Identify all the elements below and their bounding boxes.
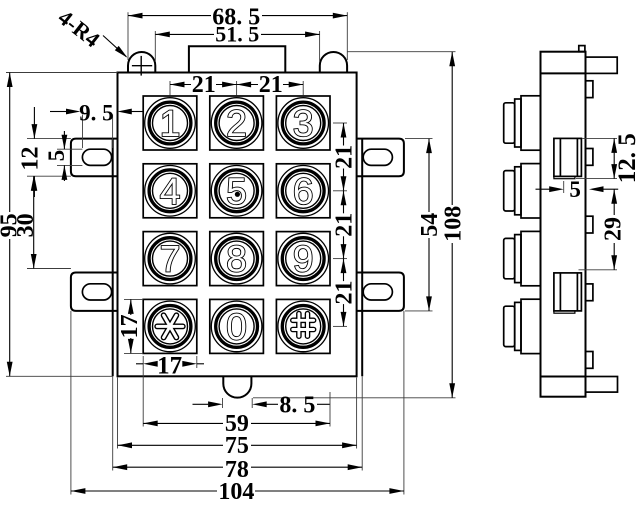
dimension 75 plate width	[118, 444, 224, 446]
side view rear nub 2	[586, 149, 593, 166]
extension lines for top 21 dims	[169, 81, 171, 96]
front view keypad body plate outline	[118, 73, 357, 377]
svg-text:17: 17	[157, 352, 182, 379]
extension lines for dim 17 horizontal	[142, 356, 144, 368]
upper-left ear slot	[82, 149, 111, 165]
side view button 4 profile	[504, 299, 541, 353]
dimension 108 total height	[451, 52, 453, 205]
top-right half-round bump lobe	[320, 52, 347, 73]
side view switch block 1	[554, 138, 582, 178]
side view top rear tab	[586, 57, 618, 73]
svg-text:7: 7	[160, 239, 181, 280]
side view top division line	[541, 72, 586, 74]
svg-text:5: 5	[44, 150, 69, 162]
extension lines for right 21 dims	[333, 122, 347, 124]
upper-right mounting ear	[357, 139, 404, 177]
svg-text:12. 5: 12. 5	[614, 133, 639, 183]
dimension 5 side view	[536, 188, 550, 190]
side view rear nub 1	[586, 81, 593, 98]
svg-text:21: 21	[332, 281, 358, 305]
dimension 5 slot height	[63, 131, 65, 149]
lower-right mounting ear	[357, 273, 404, 311]
svg-text:12: 12	[18, 147, 44, 171]
extension line for dim 30	[27, 268, 71, 270]
dimension 29 switch spacing	[613, 189, 615, 215]
side view bottom rear tab	[586, 377, 618, 393]
svg-text:4: 4	[160, 171, 181, 212]
dimension 51.5 tab width	[155, 33, 214, 35]
dimension 78 backplate width	[113, 466, 223, 468]
front view backplate left edge	[112, 139, 114, 377]
bottom center half-round lobe	[223, 376, 251, 397]
svg-text:9: 9	[293, 239, 314, 280]
svg-text:29: 29	[601, 217, 627, 241]
keypad button 1	[143, 96, 197, 150]
extension lines for dim 5	[57, 148, 82, 150]
keypad button 8	[210, 232, 264, 286]
lower-left ear slot	[82, 284, 111, 300]
dimension 59 button grid width	[143, 422, 223, 424]
keypad button 2	[210, 96, 264, 150]
dimension 54 ear span	[428, 139, 430, 212]
svg-text:5: 5	[226, 171, 247, 212]
svg-text:5: 5	[569, 177, 581, 202]
side view rear nub 5	[586, 352, 593, 369]
keypad button 3	[276, 96, 330, 150]
side view button 1 profile	[504, 96, 541, 150]
svg-text:0: 0	[226, 306, 247, 347]
front view backplate right edge	[361, 139, 363, 377]
svg-text:3: 3	[293, 103, 314, 144]
extension lines for dim 17 vertical	[124, 298, 143, 300]
dimension 68.5 top width	[128, 15, 211, 17]
svg-text:104: 104	[218, 479, 254, 505]
side view rear nub 3	[586, 216, 593, 233]
svg-text:21: 21	[332, 145, 358, 169]
svg-text:1: 1	[160, 103, 181, 144]
center mark cross on left bump	[132, 65, 152, 67]
extension lines for dim 95	[6, 72, 118, 74]
dimensions 21 21 button column pitch	[170, 84, 191, 86]
svg-text:75: 75	[225, 433, 249, 459]
side view bottom division line	[541, 376, 586, 378]
side view button 2 profile	[504, 164, 541, 218]
keypad button 5	[210, 164, 264, 218]
svg-text:108: 108	[440, 206, 466, 242]
svg-text:30: 30	[13, 213, 39, 237]
dimension 17 button height	[130, 299, 132, 315]
svg-text:51. 5: 51. 5	[215, 21, 259, 46]
extension line for side dim 5	[563, 181, 565, 193]
keypad button 0	[210, 299, 264, 353]
extension line for dim 29	[579, 269, 618, 271]
side view housing plate	[541, 52, 586, 397]
svg-text:6: 6	[293, 171, 314, 212]
dimension 95 body height	[9, 73, 11, 213]
keypad button 4	[143, 164, 197, 218]
svg-text:2: 2	[226, 103, 247, 144]
extension lines for dim 12.5	[582, 137, 617, 139]
dimension 8.5 bottom lobe width	[193, 403, 209, 405]
lower-left mounting ear	[71, 273, 118, 311]
side view button 3 profile	[504, 231, 541, 285]
extension lines for dim 78	[112, 376, 114, 470]
extension lines for dim 8.5	[222, 398, 224, 408]
extension lines for dim 51.5	[154, 31, 156, 62]
extension lines for dim 59	[142, 368, 144, 427]
keypad button 9	[276, 232, 330, 286]
dimensions 21 button row pitch right	[343, 123, 345, 146]
dimension 17 button width	[136, 363, 143, 365]
dimension 30 ear spacing	[33, 176, 35, 268]
top tab on body	[189, 46, 285, 72]
dimension 12 ear height	[33, 107, 35, 139]
svg-text:21: 21	[259, 72, 283, 98]
top-left half-round bump lobe	[128, 52, 155, 73]
svg-text:21: 21	[192, 72, 216, 98]
upper-right ear slot	[363, 149, 392, 165]
side view rear nub 4	[586, 284, 593, 301]
lower-right ear slot	[363, 284, 392, 300]
svg-text:9. 5: 9. 5	[79, 100, 114, 125]
keypad button star	[143, 299, 197, 353]
dimension 12.5 switch height	[613, 138, 615, 178]
svg-text:54: 54	[417, 213, 443, 237]
extension lines for dim 54	[405, 138, 433, 140]
keypad button hash	[276, 299, 330, 353]
extension lines for dim 9.5	[82, 115, 84, 149]
extension lines for dim 75	[117, 378, 119, 449]
keypad button 6	[276, 164, 330, 218]
dimension 9.5 slot width	[50, 111, 66, 113]
svg-text:21: 21	[332, 213, 358, 237]
svg-text:8. 5: 8. 5	[279, 393, 315, 419]
dimension 104 overall width	[71, 490, 217, 492]
extension lines for dim 68.5	[127, 12, 129, 60]
extension lines for dim 12	[27, 138, 71, 140]
side view small top boss	[579, 46, 585, 52]
extension lines for dim 104	[70, 311, 72, 495]
upper-left mounting ear	[71, 139, 118, 177]
svg-text:17: 17	[117, 314, 143, 338]
svg-text:8: 8	[226, 239, 247, 280]
extension lines for dim 108	[347, 51, 456, 53]
keypad button 7	[143, 232, 197, 286]
side view switch block 2	[554, 273, 582, 313]
